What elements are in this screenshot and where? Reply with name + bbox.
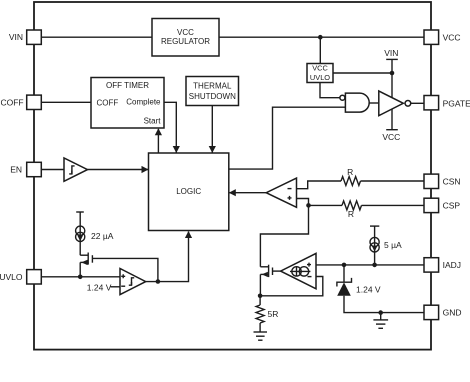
svg-text:UVLO: UVLO — [0, 272, 23, 282]
svg-text:SHUTDOWN: SHUTDOWN — [189, 92, 236, 101]
svg-text:VCC: VCC — [177, 28, 194, 37]
svg-text:GND: GND — [443, 308, 462, 318]
svg-text:R: R — [348, 209, 354, 219]
svg-text:PGATE: PGATE — [443, 98, 470, 108]
svg-text:22 µA: 22 µA — [91, 231, 114, 241]
svg-text:1.24 V: 1.24 V — [87, 282, 112, 292]
svg-text:CSN: CSN — [443, 176, 461, 186]
svg-text:5R: 5R — [268, 309, 279, 319]
svg-text:VIN: VIN — [384, 48, 398, 58]
svg-text:CSP: CSP — [443, 201, 461, 211]
svg-text:IADJ: IADJ — [443, 260, 461, 270]
svg-text:1.24 V: 1.24 V — [356, 285, 381, 295]
svg-text:VCC: VCC — [443, 32, 461, 42]
svg-text:REGULATOR: REGULATOR — [161, 37, 210, 46]
svg-text:COFF: COFF — [0, 98, 23, 108]
svg-text:VCC: VCC — [312, 63, 328, 72]
svg-text:THERMAL: THERMAL — [193, 82, 232, 91]
svg-text:VCC: VCC — [382, 132, 400, 142]
svg-text:Complete: Complete — [126, 97, 161, 106]
svg-text:Start: Start — [144, 116, 162, 125]
svg-text:R: R — [347, 167, 353, 177]
svg-text:UVLO: UVLO — [310, 73, 330, 82]
svg-text:OFF TIMER: OFF TIMER — [106, 81, 149, 90]
svg-text:EN: EN — [10, 165, 22, 175]
svg-text:VIN: VIN — [9, 32, 23, 42]
svg-text:COFF: COFF — [97, 99, 119, 108]
svg-text:5 µA: 5 µA — [384, 240, 402, 250]
svg-text:LOGIC: LOGIC — [176, 187, 201, 196]
